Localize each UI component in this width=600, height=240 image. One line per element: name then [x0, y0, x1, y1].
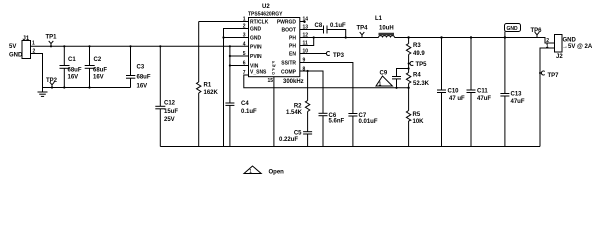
wire U2 pin3 GND: [224, 37, 249, 39]
inductor L1: [375, 16, 395, 38]
svg-text:GND: GND: [9, 53, 23, 59]
capacitor C11: [467, 36, 492, 146]
svg-text:GND: GND: [563, 38, 577, 44]
svg-text:→5V @ 2A: →5V @ 2A: [562, 44, 593, 50]
svg-text:47 uF: 47 uF: [449, 96, 465, 102]
resistor R2: [286, 70, 310, 132]
svg-text:PVIN: PVIN: [250, 54, 262, 60]
capacitor C12: [155, 45, 178, 146]
svg-text:C4: C4: [241, 101, 249, 107]
main ground rail: [160, 146, 540, 148]
svg-text:C1: C1: [68, 57, 76, 63]
input ground rail: [43, 87, 131, 89]
svg-text:TPS54620RGY: TPS54620RGY: [248, 12, 283, 18]
svg-text:1: 1: [32, 41, 35, 47]
testpoint TP3: [326, 52, 345, 60]
svg-text:49.9: 49.9: [413, 51, 425, 57]
pin numbers U2 right: [303, 17, 309, 73]
wire U2 pin8 COMP: [300, 71, 323, 113]
svg-text:162K: 162K: [204, 90, 219, 96]
svg-text:EN: EN: [289, 52, 296, 58]
svg-text:GND: GND: [250, 27, 262, 33]
wire U2 pin1 RT/CLK to R1: [199, 21, 249, 23]
svg-text:47uF: 47uF: [477, 96, 491, 102]
svg-text:0.22uF: 0.22uF: [279, 137, 298, 143]
wire U2 pin2 GND: [224, 29, 249, 147]
wire J2 pin1 to ground: [540, 48, 555, 147]
svg-text:BOOT: BOOT: [282, 28, 296, 34]
svg-text:16V: 16V: [137, 84, 148, 90]
svg-text:COMP: COMP: [281, 70, 297, 76]
svg-text:RT/CLK: RT/CLK: [250, 20, 269, 26]
resistor R4: [406, 73, 429, 111]
svg-text:4: 4: [243, 42, 246, 48]
svg-text:PWRGD: PWRGD: [277, 20, 297, 26]
capacitor C5: [279, 131, 312, 147]
svg-text:TP1: TP1: [46, 35, 58, 41]
wire U2 pin10 EN to TP3: [300, 53, 326, 55]
svg-text:0.1uF: 0.1uF: [241, 109, 257, 115]
svg-text:TP3: TP3: [333, 53, 345, 59]
pin 15 pad: [267, 77, 273, 147]
svg-text:TP2: TP2: [46, 78, 58, 84]
resistor R1: [197, 22, 219, 147]
svg-text:C9: C9: [380, 71, 388, 77]
svg-text:15: 15: [267, 78, 273, 84]
svg-text:16V: 16V: [68, 75, 79, 81]
svg-text:300kHz: 300kHz: [283, 79, 304, 85]
svg-text:R5: R5: [413, 112, 421, 118]
note legend triangle Open: [244, 166, 284, 176]
pin numbers U2 left: [243, 17, 246, 77]
svg-text:1: 1: [379, 81, 382, 87]
svg-text:R4: R4: [413, 73, 421, 79]
wire J1 pin1 to input rail: [31, 45, 249, 47]
svg-text:10K: 10K: [413, 119, 425, 125]
svg-text:GND: GND: [507, 26, 519, 32]
svg-text:U2: U2: [262, 4, 270, 10]
svg-text:R1: R1: [204, 83, 212, 89]
connector J1: [9, 36, 36, 59]
svg-text:C5: C5: [294, 131, 302, 137]
ground: [38, 88, 48, 97]
svg-text:1: 1: [249, 169, 252, 175]
svg-text:R3: R3: [413, 43, 421, 49]
svg-text:GND: GND: [250, 36, 262, 42]
svg-text:10uH: 10uH: [379, 26, 394, 32]
svg-text:15uF: 15uF: [164, 109, 178, 115]
capacitor C9: [380, 67, 410, 89]
svg-text:L1: L1: [375, 16, 383, 22]
testpoint TP5: [408, 61, 428, 68]
svg-text:16V: 16V: [93, 75, 104, 81]
capacitor C7: [348, 113, 377, 147]
svg-text:C2: C2: [94, 57, 102, 63]
capacitor C4: [225, 101, 257, 147]
wire PVIN riser: [229, 46, 231, 103]
svg-text:0.01uF: 0.01uF: [359, 119, 378, 125]
svg-text:C11: C11: [477, 89, 488, 95]
testpoint TP2: [46, 78, 58, 89]
wire U2 pin13 BOOT to C8: [300, 29, 324, 31]
capacitor C2: [85, 45, 108, 88]
output rail PH: [300, 37, 379, 39]
svg-text:C12: C12: [164, 101, 176, 107]
capacitor C3: [126, 45, 151, 89]
label GND net: [505, 24, 521, 38]
note1 triangle at C9: [376, 76, 392, 87]
capacitor C8: [315, 23, 347, 34]
svg-text:5V: 5V: [9, 44, 16, 50]
output rail after L1: [395, 38, 555, 44]
svg-text:C3: C3: [137, 65, 145, 71]
svg-text:47uF: 47uF: [511, 99, 525, 105]
svg-text:68uF: 68uF: [68, 68, 82, 74]
capacitor C13: [500, 36, 524, 146]
svg-text:1: 1: [546, 44, 549, 50]
svg-text:TP4: TP4: [357, 26, 369, 32]
capacitor C1: [60, 45, 82, 88]
connector J2: [546, 35, 593, 61]
wire U2 pin11 PH riser: [300, 38, 314, 46]
resistor R5: [406, 111, 424, 147]
svg-text:J2: J2: [556, 54, 563, 60]
svg-text:C13: C13: [511, 92, 523, 98]
wire U2 pin5 PVIN: [230, 55, 249, 57]
svg-text:PH: PH: [289, 44, 296, 50]
svg-text:C10: C10: [448, 89, 460, 95]
svg-text:0.1uF: 0.1uF: [330, 23, 346, 29]
svg-text:1.54K: 1.54K: [286, 110, 303, 116]
svg-text:J1: J1: [23, 36, 30, 42]
capacitor C10: [437, 36, 465, 146]
wire C8 to PH node: [327, 30, 346, 38]
svg-text:PH: PH: [289, 36, 296, 42]
pin 14 PWRGD stub: [300, 21, 305, 23]
svg-text:C8: C8: [315, 23, 323, 29]
IC U2 TPS54620RGY: [248, 4, 300, 77]
svg-text:V_SNS: V_SNS: [250, 70, 267, 76]
svg-text:SS/TR: SS/TR: [281, 61, 296, 67]
testpoint TP7: [539, 71, 559, 79]
svg-text:5.6nF: 5.6nF: [329, 119, 345, 125]
svg-text:PVIN: PVIN: [250, 45, 262, 51]
svg-text:TP7: TP7: [548, 73, 560, 79]
svg-text:68uF: 68uF: [137, 75, 151, 81]
wire U2 pin7 VSNS feedback: [244, 75, 409, 88]
wire U2 pin6 VIN: [230, 65, 249, 67]
svg-text:R2: R2: [294, 104, 302, 110]
svg-text:8: 8: [303, 67, 306, 73]
capacitor C6: [319, 113, 345, 147]
svg-text:25V: 25V: [164, 117, 175, 123]
svg-text:68uF: 68uF: [93, 68, 107, 74]
wire U2 pin9 SS/TR: [300, 63, 353, 114]
testpoint TP1: [46, 35, 58, 48]
wire J1 pin2 down to input ground rail: [31, 54, 43, 88]
testpoint TP4: [357, 26, 369, 38]
svg-text:TP6: TP6: [531, 28, 543, 34]
resistor R3: [406, 36, 425, 72]
svg-text:52.3K: 52.3K: [413, 81, 430, 87]
testpoint TP6: [531, 28, 543, 38]
svg-text:Open: Open: [269, 170, 285, 176]
svg-text:TP5: TP5: [416, 62, 428, 68]
